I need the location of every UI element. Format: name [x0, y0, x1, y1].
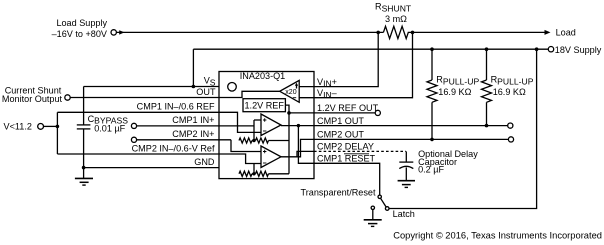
svg-text:CMP1 OUT: CMP1 OUT — [317, 116, 364, 126]
svg-text:0.01 µF: 0.01 µF — [94, 124, 125, 134]
svg-text:INA203-Q1: INA203-Q1 — [240, 71, 286, 81]
svg-text:1.2V REF OUT: 1.2V REF OUT — [317, 103, 379, 113]
svg-text:–16V to +80V: –16V to +80V — [52, 29, 108, 39]
svg-text:CMP1 IN+: CMP1 IN+ — [172, 115, 214, 125]
svg-text:Latch: Latch — [393, 209, 415, 219]
svg-text:CMP2 IN+: CMP2 IN+ — [172, 129, 214, 139]
svg-text:CMP2 DELAY: CMP2 DELAY — [317, 142, 374, 152]
svg-text:Monitor Output: Monitor Output — [2, 94, 63, 104]
svg-text:OUT: OUT — [196, 87, 216, 97]
svg-text:Load: Load — [556, 28, 576, 38]
svg-text:Load Supply: Load Supply — [56, 18, 107, 28]
svg-text:Copyright © 2016, Texas Instru: Copyright © 2016, Texas Instruments Inco… — [393, 231, 602, 241]
svg-text:Transparent/Reset: Transparent/Reset — [301, 187, 376, 197]
svg-text:16.9 KΩ: 16.9 KΩ — [438, 87, 471, 97]
svg-text:CMP1 RESET: CMP1 RESET — [317, 154, 376, 164]
svg-text:3 mΩ: 3 mΩ — [385, 14, 407, 24]
svg-text:CMP2 OUT: CMP2 OUT — [317, 130, 364, 140]
svg-text:0.2 µF: 0.2 µF — [418, 164, 444, 174]
svg-text:V<11.2: V<11.2 — [4, 122, 32, 132]
svg-text:x20: x20 — [285, 89, 296, 96]
svg-text:RPULL-UP: RPULL-UP — [491, 75, 534, 87]
svg-text:GND: GND — [194, 157, 215, 167]
svg-text:CMP2 IN–/0.6-V Ref: CMP2 IN–/0.6-V Ref — [132, 143, 215, 153]
svg-text:18V Supply: 18V Supply — [555, 45, 602, 55]
svg-text:CMP1 IN–/0.6 REF: CMP1 IN–/0.6 REF — [137, 101, 215, 111]
svg-text:16.9 KΩ: 16.9 KΩ — [493, 87, 526, 97]
svg-text:1.2V REF: 1.2V REF — [244, 101, 284, 111]
svg-text:RPULL-UP: RPULL-UP — [436, 75, 479, 87]
